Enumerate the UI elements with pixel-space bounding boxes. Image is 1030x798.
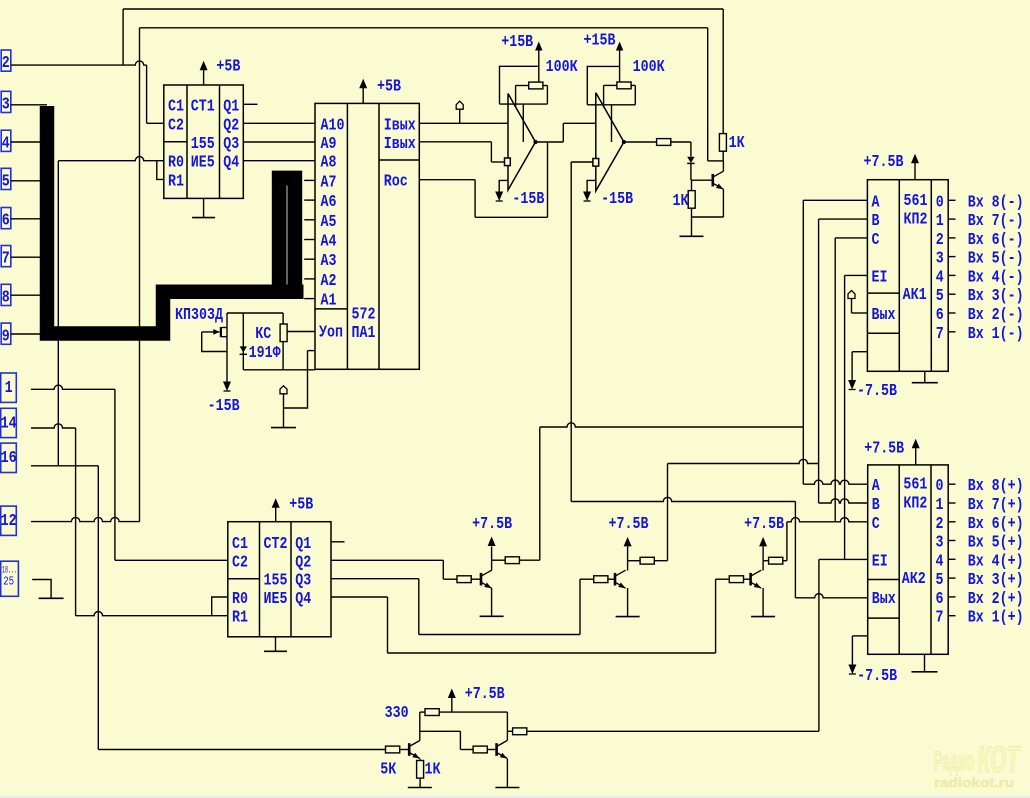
svg-text:Вх 6(-): Вх 6(-): [968, 231, 1024, 250]
svg-text:Q1: Q1: [295, 535, 311, 554]
label АК1 out 4: [936, 268, 944, 287]
label АК1 out 3: [936, 250, 944, 269]
svg-text:C1: C1: [168, 97, 184, 116]
label АК2 pin A: [872, 477, 881, 496]
resistor 1К VT5 emitter: [417, 759, 424, 788]
label CT2 pin Q2: [295, 553, 311, 572]
label АК1 out 0: [936, 193, 944, 212]
svg-text:1К: 1К: [729, 134, 746, 153]
svg-text:0: 0: [936, 193, 944, 212]
connector pin 14: [1, 408, 17, 437]
resistor VT6 base: [473, 746, 487, 753]
ground АК2: [912, 654, 938, 672]
connector pin 4: [1, 130, 11, 153]
svg-text:C2: C2: [168, 116, 184, 135]
label АК1 pin A: [872, 193, 881, 212]
wire pins18..25 to ground: [32, 580, 51, 599]
wire net EI down: [818, 559, 820, 731]
wire АК1 C input: [835, 237, 867, 239]
wire АК2 out 7 stub: [948, 615, 955, 617]
wire VT2 base lead: [471, 578, 480, 580]
label resistor 100К U2: [633, 58, 666, 77]
label АК2 pin B: [872, 496, 880, 515]
ground VT1: [680, 235, 704, 237]
svg-text:+7.5В: +7.5В: [609, 515, 649, 534]
svg-text:A4: A4: [321, 233, 337, 252]
wire top net2: [140, 27, 708, 29]
svg-text:2: 2: [2, 54, 10, 73]
svg-text:Радио: Радио: [934, 746, 975, 776]
wire АК2 out 2 stub: [948, 521, 955, 523]
svg-text:A3: A3: [321, 252, 337, 271]
label АК2 out 2: [936, 515, 944, 534]
power +5В CT1: [200, 58, 241, 86]
svg-text:16: 16: [1, 449, 17, 468]
node U1 output: [533, 140, 537, 144]
ground VT5: [408, 787, 432, 789]
label CT1 pin R1: [168, 172, 184, 191]
wire Iвых1 to U1 input: [419, 122, 508, 124]
label Вх 6(+): [968, 515, 1024, 534]
svg-text:4: 4: [936, 552, 944, 571]
label Вх 8(-): [968, 193, 1024, 212]
wire АК2 out 0 stub: [948, 483, 955, 485]
label АК2 pin EI: [872, 552, 888, 571]
svg-text:7: 7: [936, 609, 944, 628]
svg-text:radiokot.ru: radiokot.ru: [934, 776, 1014, 790]
label CT2 pin Q3: [295, 572, 311, 591]
label Вх 3(-): [968, 287, 1024, 306]
label DAC pin A9: [321, 135, 337, 154]
wire riser pin16: [97, 466, 99, 750]
transistor КП303Д (JFET): [202, 327, 227, 337]
svg-text:-15В: -15В: [208, 397, 240, 416]
label Вх 3(+): [968, 571, 1024, 590]
counter IC CT1 155ИЕ5 body: [164, 85, 244, 198]
svg-text:2: 2: [936, 231, 944, 250]
svg-text:5: 5: [2, 173, 10, 192]
wire КП303Д gate loop: [202, 332, 227, 352]
label CT1 ИЕ5: [191, 154, 215, 173]
label АК1 out 7: [936, 325, 944, 344]
svg-text:Вых: Вых: [872, 306, 896, 325]
input square marker U2: [593, 159, 599, 167]
label Вх 5(+): [968, 534, 1024, 553]
label CT1 pin C1: [168, 97, 184, 116]
svg-text:R0: R0: [232, 590, 248, 609]
svg-text:155: 155: [264, 572, 288, 591]
svg-text:EI: EI: [872, 552, 888, 571]
svg-text:Вх 4(+): Вх 4(+): [968, 552, 1024, 571]
resistor VT3 base: [594, 576, 608, 583]
connector pins 18..25: [1, 561, 19, 596]
svg-text:3: 3: [2, 96, 10, 115]
svg-text:1: 1: [936, 496, 944, 515]
wire CT2 Q1 stub: [331, 541, 345, 543]
resistor VT4 base: [729, 576, 743, 583]
svg-text:A6: A6: [321, 193, 337, 212]
label АК1 out 1: [936, 212, 944, 231]
wire VT4 emitter: [762, 588, 764, 617]
svg-text:Iвых: Iвых: [384, 135, 416, 154]
power +7.5В АК1: [864, 153, 920, 180]
wire VT5 collector: [419, 712, 421, 740]
wire АК1 out 7 stub: [948, 331, 955, 333]
label АК2 pin Вых: [872, 590, 896, 609]
connector pin 6: [1, 208, 11, 231]
label DAC pin Уоп: [319, 323, 343, 342]
wire pin5 stub: [11, 180, 47, 182]
wire VT4 base lead: [744, 578, 750, 580]
label АК2 out 3: [936, 534, 944, 553]
wire VT6 base lead: [487, 749, 496, 751]
power -15В U2: [583, 180, 633, 209]
svg-text:Вх 5(-): Вх 5(-): [968, 250, 1024, 269]
wire Roc to U1 output: [419, 142, 547, 217]
label АК1 КП2: [904, 211, 928, 230]
transistor VT6 (NPN): [497, 741, 508, 759]
label CT1 pin C2: [168, 116, 184, 135]
label АК1 pin C: [872, 231, 880, 250]
wire VT6 emitter: [506, 759, 508, 788]
svg-text:8: 8: [2, 289, 10, 308]
svg-text:Q4: Q4: [223, 154, 239, 173]
svg-text:Q2: Q2: [223, 116, 239, 135]
wire net C row: [787, 518, 868, 522]
svg-text:25: 25: [3, 576, 14, 589]
svg-text:6: 6: [936, 306, 944, 325]
wire net A vertical: [802, 200, 804, 484]
label АК1 pin B: [872, 212, 880, 231]
wire DAC A5 stub: [304, 219, 315, 221]
svg-text:Вх 3(-): Вх 3(-): [968, 287, 1024, 306]
svg-text:КП2: КП2: [903, 495, 927, 514]
label АК2 out 4: [936, 552, 944, 571]
wire pin3 stub: [11, 104, 47, 106]
transistor VT5 (NPN): [409, 741, 420, 759]
label АК1 out 6: [936, 306, 944, 325]
label zener 191Ф: [249, 344, 282, 363]
ground VT4: [751, 616, 775, 618]
wire reference top rail: [227, 312, 283, 314]
resistor VT2 base: [457, 576, 471, 583]
label АК2 КП2: [903, 495, 927, 514]
label CT2 pin C1: [232, 535, 248, 554]
label Вх 5(-): [968, 250, 1024, 269]
svg-text:155: 155: [191, 135, 215, 154]
wire VT1 collector: [708, 161, 724, 171]
label CT1 pin Q4: [223, 154, 239, 173]
svg-text:Вх 2(+): Вх 2(+): [968, 590, 1024, 609]
wire АК2 out 1 stub: [948, 502, 955, 504]
wire pin2 to riser: [11, 61, 147, 65]
wire VT6 collector node to out resistor: [507, 730, 512, 732]
svg-text:C2: C2: [232, 553, 248, 572]
svg-text:Вх 8(+): Вх 8(+): [968, 477, 1024, 496]
svg-text:ИЕ5: ИЕ5: [191, 154, 215, 173]
svg-text:1К: 1К: [425, 761, 442, 780]
svg-text:Вх 5(+): Вх 5(+): [968, 534, 1024, 553]
label CT2 155: [264, 572, 288, 591]
svg-text:КС: КС: [255, 325, 271, 344]
svg-text:+5В: +5В: [216, 58, 240, 77]
watermark РадиоКОТ: [934, 739, 1021, 790]
svg-text:A1: A1: [321, 292, 337, 311]
svg-text:1: 1: [936, 212, 944, 231]
label Вх 6(-): [968, 231, 1024, 250]
wire VT6 collector: [506, 712, 508, 740]
power +5В DAC: [359, 78, 401, 104]
svg-text:Q3: Q3: [295, 572, 311, 591]
wire VT1 base: [692, 179, 713, 181]
svg-text:Вх 7(-): Вх 7(-): [968, 212, 1024, 231]
svg-text:14: 14: [1, 414, 17, 433]
label CT1 type: [191, 97, 215, 116]
label АК2 561: [903, 476, 927, 495]
svg-text:330: 330: [385, 704, 409, 723]
svg-text:Вх 4(-): Вх 4(-): [968, 268, 1024, 287]
wire U2 output to resistor: [624, 141, 657, 143]
wire VT3 emitter: [627, 588, 629, 617]
label АК1 561: [904, 192, 928, 211]
wire VT2 collector: [492, 560, 506, 570]
svg-text:3: 3: [936, 250, 944, 269]
wire pin16 row: [31, 465, 98, 467]
power +7.5В АК2: [864, 439, 920, 465]
power -7.5В АК2: [848, 636, 897, 686]
svg-text:+7.5В: +7.5В: [472, 515, 512, 534]
svg-text:Вх 6(+): Вх 6(+): [968, 515, 1024, 534]
label DAC ПА1: [352, 324, 376, 343]
wire АК2 B input: [819, 499, 868, 503]
wire DAC A1 stub: [304, 298, 315, 300]
svg-text:Q2: Q2: [295, 553, 311, 572]
label CT2 type: [264, 535, 288, 554]
svg-text:191Ф: 191Ф: [249, 344, 282, 363]
label CT2 pin R1: [232, 609, 248, 628]
ground АК1: [912, 371, 938, 382]
svg-text:9: 9: [2, 327, 10, 346]
resistor 1К series U2 out: [657, 139, 671, 146]
resistor 100К U2 feedback: [617, 82, 631, 89]
svg-text:КП2: КП2: [904, 211, 928, 230]
wire DAC ground jog: [284, 351, 308, 408]
label АК2 pin C: [872, 515, 880, 534]
wire VT3 base lead: [609, 578, 615, 580]
label CT2 ИЕ5: [264, 590, 288, 609]
svg-text:+5В: +5В: [289, 496, 313, 515]
svg-text:-7.5В: -7.5В: [857, 382, 897, 401]
wire DAC ground stem: [283, 394, 285, 428]
label Вх 8(+): [968, 477, 1024, 496]
diode series VT1 base: [687, 157, 694, 181]
transistor VT1 (NPN): [713, 171, 724, 189]
wire DAC A4 stub: [304, 239, 315, 241]
label zener КС: [255, 325, 271, 344]
svg-text:ПА1: ПА1: [352, 324, 376, 343]
svg-text:1: 1: [5, 379, 13, 398]
svg-text:12: 12: [1, 512, 17, 531]
wire 330 left lead: [420, 711, 425, 713]
wire Iвых2 to U1 inverting: [419, 142, 504, 162]
wire АК2 Вых row: [795, 594, 867, 598]
wire КП303Д drain/source vertical: [226, 313, 228, 382]
mux IC АК1 561КП2 body: [867, 180, 948, 372]
terminal pentagon АК1 Вых: [848, 291, 867, 314]
svg-text:R1: R1: [168, 172, 184, 191]
node U2 output: [622, 140, 626, 144]
wire VT2 collector to net A: [519, 427, 540, 560]
svg-text:561: 561: [903, 476, 927, 495]
svg-text:7: 7: [2, 250, 10, 269]
svg-text:C: C: [872, 515, 880, 534]
power +7.5В VT3: [609, 515, 649, 561]
resistor 1К VT1 base-gnd: [688, 180, 695, 236]
svg-text:1К: 1К: [673, 192, 690, 211]
wire CT2 Q3 to VT3 base: [331, 579, 593, 635]
connector pin 3: [1, 91, 11, 114]
label АК2 out 1: [936, 496, 944, 515]
wire CT1 Q1 stub: [243, 103, 257, 105]
wire АК2 A input: [803, 480, 867, 484]
label АК1 out 2: [936, 231, 944, 250]
power +15В U1: [501, 33, 542, 82]
label DAC pin A6: [321, 193, 337, 212]
wire riser pin12/top: [139, 28, 141, 522]
label DAC pin A7: [321, 173, 337, 192]
connector pin 8: [1, 284, 11, 307]
connector pin 12: [1, 506, 17, 535]
svg-text:Roc: Roc: [384, 173, 408, 192]
label DAC pin A3: [321, 252, 337, 271]
wire CT2 R0 jog: [212, 597, 228, 616]
wire АК1 out 1 stub: [948, 218, 955, 220]
transistor VT2 (NPN): [481, 570, 492, 588]
wire VT5 collector to VT6 base: [420, 731, 473, 749]
wire pin12 row: [31, 517, 140, 521]
label Вх 4(+): [968, 552, 1024, 571]
svg-text:100К: 100К: [546, 58, 579, 77]
wire riser pin2 to CT1 C2: [146, 65, 148, 123]
wire АК1 out 5 stub: [948, 293, 955, 295]
wire VT3 collector: [628, 561, 641, 571]
wire АК1 out 0 stub: [948, 199, 955, 201]
terminal pentagon DAC ground: [280, 386, 287, 394]
svg-text:572: 572: [352, 305, 376, 324]
svg-text:0: 0: [936, 477, 944, 496]
svg-text:+7.5В: +7.5В: [744, 515, 784, 534]
label АК1 pin EI: [872, 268, 888, 287]
label АК2 out 5: [936, 571, 944, 590]
wire CT1 R0 input: [58, 157, 164, 161]
connector pin 16: [1, 443, 17, 472]
svg-text:-7.5В: -7.5В: [857, 667, 897, 686]
wire АК2 out 5 stub: [948, 577, 955, 579]
svg-text:CT1: CT1: [191, 97, 215, 116]
wire АК1 out 6 stub: [948, 312, 955, 314]
wire net2 down to VT1: [707, 28, 709, 161]
label АК1 name: [903, 286, 927, 305]
wire АК2 Вых to U2 inverting: [571, 162, 593, 502]
power +7.5В VT4: [744, 515, 784, 561]
label DAC pin Iвых(1): [384, 116, 416, 135]
label CT2 pin C2: [232, 553, 248, 572]
resistor VT3 collector: [640, 557, 654, 564]
wire riser pin1: [114, 389, 116, 560]
wire VT4 collector to net C: [783, 522, 787, 561]
svg-text:6: 6: [936, 590, 944, 609]
resistor 1К pullup: [719, 9, 726, 161]
svg-text:A: A: [872, 193, 881, 212]
label DAC pin A2: [321, 272, 337, 291]
svg-text:5: 5: [936, 571, 944, 590]
wire DAC A7 stub: [304, 179, 315, 181]
label DAC pin A5: [321, 213, 337, 232]
label DAC pin A10: [321, 116, 345, 135]
svg-text:Вх 3(+): Вх 3(+): [968, 571, 1024, 590]
wire pin14 to CT2 R0R1 riser: [31, 424, 76, 428]
label АК1 out 5: [936, 287, 944, 306]
wire VT4 collector: [763, 561, 768, 571]
ground VT6: [495, 787, 519, 789]
svg-text:5: 5: [936, 287, 944, 306]
terminal pentagon U1 input: [456, 101, 463, 123]
resistor 330: [425, 709, 439, 716]
wire VT5 base lead: [400, 749, 409, 751]
wire net B vertical: [818, 219, 820, 503]
wire АК2 EI row: [819, 558, 868, 560]
label resistor 330: [385, 704, 409, 723]
op-amp U1 triangle: [508, 94, 536, 191]
svg-text:АК2: АК2: [902, 570, 926, 589]
label АК1 pin Вых: [872, 306, 896, 325]
resistor VT4 collector: [769, 557, 783, 564]
wire pin1 to CT2 C2 riser: [31, 385, 115, 389]
resistor 5К VT5 base: [386, 746, 400, 753]
power -7.5В АК1: [848, 352, 897, 401]
svg-text:КП303Д: КП303Д: [175, 306, 223, 325]
svg-text:C1: C1: [232, 535, 248, 554]
svg-text:Q4: Q4: [295, 590, 311, 609]
svg-text:Q3: Q3: [223, 135, 239, 154]
svg-text:4: 4: [936, 268, 944, 287]
label DAC pin A8: [321, 154, 337, 173]
label CT2 pin Q1: [295, 535, 311, 554]
wire CT2 C2 input: [115, 559, 228, 561]
ground VT2: [480, 615, 504, 617]
power +5В CT2: [272, 496, 314, 522]
wire DAC Уоп input: [286, 331, 315, 333]
label CT1 pin Q1: [223, 97, 239, 116]
label АК2 out 7: [936, 609, 944, 628]
transistor VT4 (NPN): [751, 570, 762, 588]
label CT2 pin R0: [232, 590, 248, 609]
svg-text:+15В: +15В: [584, 32, 616, 51]
svg-text:4: 4: [2, 134, 10, 153]
wire pin7 stub: [11, 256, 47, 258]
op-amp U2 triangle: [596, 93, 624, 191]
power +7.5В bottom: [448, 685, 505, 712]
wire pin4 stub: [11, 141, 47, 143]
svg-text:Вых: Вых: [872, 590, 896, 609]
svg-text:A7: A7: [321, 173, 337, 192]
wire CT2 R0R1 input: [76, 612, 228, 616]
wire CT1 Q2 to A10: [243, 122, 315, 124]
wire АК2 out 4 stub: [948, 558, 955, 560]
label CT1 155: [191, 135, 215, 154]
input square marker U1: [505, 158, 511, 166]
resistor reference (vertical): [280, 313, 287, 370]
